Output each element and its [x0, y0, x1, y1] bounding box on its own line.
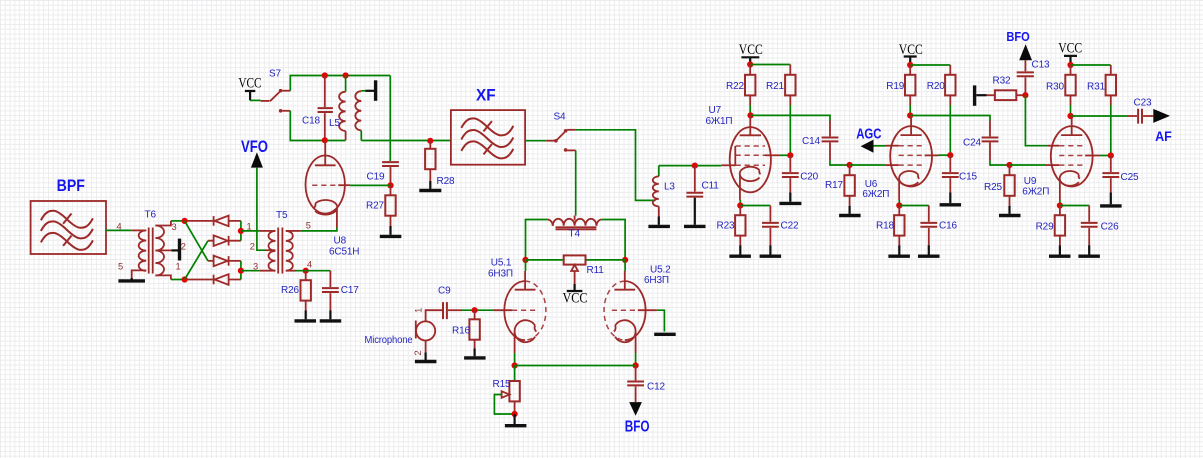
transformer T6 [132, 221, 172, 280]
svg-text:R23: R23 [717, 221, 735, 232]
inductor L3 [653, 166, 659, 217]
wire grid U6 [850, 164, 885, 166]
svg-text:R25: R25 [984, 182, 1002, 193]
node ring right-bottom [238, 268, 244, 274]
svg-text:C14: C14 [802, 136, 820, 147]
svg-text:R32: R32 [993, 76, 1011, 87]
wire U6 cathode [898, 200, 900, 206]
wire U5.2 cathode down [635, 353, 637, 366]
node U6 plate [907, 112, 913, 118]
svg-text:6Н3П: 6Н3П [644, 275, 669, 286]
wire ring to T5 pin1 [241, 230, 260, 232]
wire U9 cathode [1059, 200, 1061, 206]
svg-text:2: 2 [181, 241, 186, 251]
wire ring cross diagonal A [185, 221, 208, 261]
node cathode left [511, 362, 517, 368]
svg-text:C23: C23 [1134, 98, 1152, 109]
power VCC (U9) [1058, 40, 1082, 62]
wire T6 pin1 to ring [171, 279, 185, 281]
wire L3 top to U7 grid [659, 165, 722, 167]
power VCC (U7) [739, 42, 763, 62]
wire ring right top vertical [240, 221, 242, 241]
svg-text:2: 2 [413, 350, 423, 355]
arrow AF (right) [1153, 109, 1170, 123]
svg-text:C15: C15 [959, 172, 977, 183]
ground at U5.2 grid [654, 333, 676, 336]
wire U7 cathode [739, 200, 741, 206]
node R25 top [1006, 162, 1012, 168]
diode D1 [187, 216, 241, 227]
svg-text:C18: C18 [302, 116, 320, 127]
svg-text:C22: C22 [781, 221, 799, 232]
wire S4 top to L3 tap [576, 130, 656, 201]
ground under L3 [648, 217, 670, 227]
transformer T4 [548, 216, 602, 230]
node U5.2 plate [622, 257, 628, 263]
inductor L5 [339, 76, 346, 141]
svg-text:U7: U7 [709, 105, 722, 116]
node C13/R32 [1022, 92, 1028, 98]
resistor R25 [1004, 165, 1014, 206]
svg-text:R31: R31 [1087, 82, 1105, 93]
node R15 bottom [511, 411, 517, 417]
ground under R16 [464, 349, 486, 358]
svg-text:VCC: VCC [899, 42, 923, 58]
ground under C22 [760, 245, 782, 256]
rheostat R15 [494, 366, 519, 415]
wire AGC to U6 [874, 145, 887, 147]
node R17 top [847, 162, 853, 168]
wire grid U9 [1010, 164, 1046, 166]
wire T5 pin5 to U8 cathode [301, 227, 337, 231]
node R28 top [427, 138, 433, 144]
ground under T6 pin5 [118, 278, 145, 281]
wire C14 to U6 grid [830, 160, 850, 165]
svg-text:C13: C13 [1032, 60, 1050, 71]
resistor R32 (horizontal) [987, 90, 1026, 100]
ground under C15 [940, 193, 962, 205]
triode U8 [306, 141, 351, 228]
svg-text:Microphone: Microphone [365, 335, 414, 346]
svg-text:R29: R29 [1036, 222, 1054, 233]
svg-text:T6: T6 [145, 210, 157, 221]
svg-text:C19: C19 [367, 172, 385, 183]
svg-text:R20: R20 [927, 81, 945, 92]
node U7 cathode [737, 202, 743, 208]
node C11 top [692, 163, 698, 169]
capacitor C25 [1102, 156, 1119, 193]
ground under C17 [320, 311, 342, 321]
node C18 top [322, 72, 328, 78]
svg-text:R18: R18 [876, 221, 894, 232]
svg-text:U8: U8 [334, 236, 347, 247]
svg-text:R22: R22 [726, 81, 744, 92]
node L5 top [343, 72, 349, 78]
arrow AGC (left) [861, 140, 874, 153]
svg-text:VFO: VFO [241, 138, 268, 156]
node U6 cathode [896, 202, 902, 208]
wire cathode bus [515, 365, 636, 367]
svg-text:BPF: BPF [57, 176, 85, 195]
capacitor C17 [322, 271, 339, 311]
wire VCC to R31 [1071, 64, 1111, 66]
node tank bottom / U8 plate [322, 137, 328, 143]
wire XF out [525, 140, 546, 142]
ground under R23 [729, 245, 751, 256]
terminal bar at T6 pin2 [172, 239, 180, 261]
resistor R18 [894, 206, 904, 246]
node U5.1 plate [522, 257, 528, 263]
wire tank bottom rail to XF input [361, 140, 451, 142]
svg-text:3: 3 [253, 261, 258, 271]
svg-text:R17: R17 [825, 180, 843, 191]
node U9 cathode [1057, 202, 1063, 208]
wire U6 screen [939, 154, 951, 156]
capacitor C9 [443, 302, 462, 319]
wire R11 right [586, 259, 626, 261]
resistor R20 [945, 65, 955, 155]
svg-text:U5.2: U5.2 [650, 265, 671, 276]
capacitor C24 [982, 121, 999, 161]
svg-text:R19: R19 [886, 81, 904, 92]
wire ring right bottom vertical [240, 261, 242, 280]
pentode U9 [1046, 116, 1100, 200]
node U6 screen [947, 152, 953, 158]
wire R11 left [526, 259, 564, 261]
node VCC U7 [747, 61, 753, 67]
arrow BFO (up) [1019, 44, 1032, 60]
ground under C20 [779, 193, 801, 204]
wire U8 grid [350, 184, 390, 186]
svg-text:R27: R27 [366, 201, 384, 212]
wire U5.1 cathode down [514, 353, 516, 366]
wire ring to T5 pin3 [241, 270, 260, 272]
triode U5.2 [604, 260, 657, 353]
capacitor C13 [1017, 60, 1034, 95]
resistor R29 [1055, 206, 1065, 246]
switch S4 [546, 129, 576, 152]
ground under R29 [1049, 245, 1071, 256]
svg-text:VCC: VCC [563, 291, 588, 307]
capacitor C14 [822, 121, 839, 161]
svg-text:XF: XF [476, 87, 496, 105]
resistor R22 [745, 65, 755, 116]
node U9 plate [1067, 113, 1073, 119]
wire ring cross diagonal B [185, 241, 208, 280]
resistor R30 [1065, 65, 1075, 116]
svg-text:C12: C12 [647, 382, 665, 393]
svg-text:L3: L3 [664, 182, 675, 193]
node ring bottom-left [182, 276, 188, 282]
svg-text:AGC: AGC [856, 125, 881, 142]
svg-text:R28: R28 [437, 176, 455, 187]
ground under R18 [888, 245, 910, 256]
wire VCC to R20 [910, 64, 950, 66]
svg-text:VCC: VCC [238, 76, 261, 92]
wire BPF to T6 pin 4 [106, 229, 132, 231]
wire cathode to C22 [740, 205, 770, 207]
svg-text:6Ж2П: 6Ж2П [1022, 186, 1049, 197]
wire U7 plate rail to C14 [751, 115, 831, 120]
svg-text:R15: R15 [493, 379, 511, 390]
wire U7 screen [779, 154, 790, 156]
ground under C11 [684, 225, 706, 228]
wire S7 bottom contact down [290, 111, 345, 141]
svg-text:1: 1 [176, 262, 181, 272]
svg-text:6Н3П: 6Н3П [488, 269, 513, 280]
svg-text:6C51H: 6C51H [329, 247, 359, 258]
capacitor C23 [1128, 109, 1153, 124]
svg-text:C9: C9 [438, 286, 451, 297]
node C19/R27/U8 grid [387, 182, 393, 188]
power VCC (osc) [238, 76, 261, 101]
node U7 plate [747, 112, 753, 118]
pentode U7 [721, 115, 779, 200]
svg-text:S4: S4 [554, 112, 567, 123]
wire cathode to C16 [899, 205, 929, 207]
wire C9 to U5.1 grid [462, 309, 494, 311]
wire VCC to R21 [750, 64, 790, 66]
node U9 screen [1108, 152, 1114, 158]
ground under R25 [999, 206, 1021, 216]
diode D4 [187, 274, 241, 285]
wire C24 to U9 grid [990, 160, 1010, 165]
BPF filter block [31, 201, 106, 254]
svg-text:1: 1 [247, 222, 252, 232]
svg-text:2: 2 [250, 241, 255, 251]
capacitor C18 [318, 76, 333, 141]
resistor R19 [905, 65, 915, 116]
triode U5.1 [494, 260, 546, 353]
diode D2 [208, 235, 241, 246]
wire U9 plate rail to C23 [1071, 115, 1129, 117]
svg-text:R21: R21 [766, 81, 784, 92]
wire U6 plate rail to C24 [910, 116, 990, 121]
svg-text:AF: AF [1155, 129, 1172, 145]
svg-text:R26: R26 [281, 285, 299, 296]
node ring top-left [182, 218, 188, 224]
ground under R15 [505, 414, 527, 426]
svg-text:C17: C17 [341, 285, 359, 296]
capacitor C20 [782, 155, 799, 192]
switch S7 [250, 89, 290, 113]
svg-text:1: 1 [413, 308, 423, 313]
diode D3 [208, 256, 241, 267]
ground under R28 [419, 181, 441, 191]
capacitor C19 [382, 162, 399, 185]
resistor R23 [735, 206, 745, 246]
ground under C25 [1100, 193, 1122, 206]
svg-text:R16: R16 [452, 326, 470, 337]
svg-text:R11: R11 [587, 265, 605, 276]
resistor R21 [785, 65, 795, 156]
svg-text:C24: C24 [963, 138, 981, 149]
node R16 top [472, 307, 478, 313]
svg-text:4: 4 [307, 259, 312, 269]
svg-text:BFO: BFO [1006, 30, 1030, 44]
pentode U6 [885, 116, 939, 201]
capacitor C11 [686, 166, 703, 225]
crystal filter XF block [451, 110, 525, 165]
svg-text:C26: C26 [1101, 222, 1119, 233]
svg-text:4: 4 [117, 221, 122, 231]
ground under R27 [380, 226, 402, 236]
inductor L5b (coupled winding) [355, 91, 365, 141]
wire S7 top to tank rail [290, 76, 390, 91]
wire T5 pin4 to R26/C17 [296, 270, 330, 272]
resistor R28 [425, 141, 435, 181]
wire VFO to T5 pin2 [257, 168, 266, 251]
svg-text:VCC: VCC [739, 42, 763, 58]
svg-text:VCC: VCC [1058, 40, 1082, 56]
svg-text:6Ж2П: 6Ж2П [862, 189, 889, 200]
svg-text:C20: C20 [800, 172, 818, 183]
wire T4 left to U5.1 plate [526, 220, 548, 260]
resistor R26 [301, 271, 311, 311]
capacitor C26 [1081, 206, 1098, 246]
svg-text:BFO: BFO [625, 419, 650, 436]
wire T6 pin3 to ring [171, 220, 185, 222]
node VCC U6 [907, 62, 913, 68]
capacitor C15 [942, 155, 959, 192]
arrow BFO (down) [629, 402, 642, 416]
wire T4 right to U5.2 plate [602, 220, 625, 260]
capacitor C12 [627, 366, 644, 403]
wire cathode to C26 [1060, 205, 1089, 207]
ground under C16 [918, 245, 940, 256]
resistor R31 [1106, 65, 1116, 156]
wire U5.2 grid to ground [657, 310, 665, 331]
wire C19 vertical from top rail [389, 76, 391, 162]
resistor R27 [385, 185, 395, 226]
resistor R16 [469, 310, 479, 348]
capacitor C22 [762, 206, 779, 246]
wire BFO to U9 [1025, 95, 1048, 146]
ground under R26 [295, 311, 317, 321]
ground under C26 [1078, 245, 1100, 256]
node VCC U9 [1067, 62, 1073, 68]
svg-text:T5: T5 [276, 210, 288, 221]
transformer T5 [260, 228, 301, 274]
power VCC (U6) [899, 42, 923, 63]
ground under mic [415, 353, 437, 362]
svg-text:C11: C11 [702, 181, 720, 192]
node T5 pin4 [303, 268, 309, 274]
svg-text:L5: L5 [329, 118, 340, 129]
node cathode right [633, 362, 639, 368]
svg-text:C25: C25 [1121, 172, 1139, 183]
terminal bar at R32 [975, 85, 987, 105]
svg-text:3: 3 [172, 222, 177, 232]
svg-text:S7: S7 [269, 69, 282, 80]
svg-text:R30: R30 [1046, 82, 1064, 93]
ground under R17 [839, 206, 861, 216]
svg-text:6Ж1П: 6Ж1П [706, 116, 733, 127]
wire S4 bottom to T4 tap [575, 150, 577, 215]
node U7 screen [787, 152, 793, 158]
svg-text:U5.1: U5.1 [491, 258, 512, 269]
microphone BM1 [416, 310, 442, 352]
svg-text:C16: C16 [939, 221, 957, 232]
node ring right-top [238, 228, 244, 234]
potentiometer R11 [564, 255, 586, 284]
terminal bar at L5b [365, 80, 375, 101]
power VCC (R11) [563, 284, 588, 307]
wire U9 screen [1099, 155, 1111, 157]
svg-text:5: 5 [118, 262, 123, 272]
svg-text:T4: T4 [569, 229, 581, 240]
resistor R17 [844, 165, 854, 206]
arrow VFO [251, 152, 263, 167]
capacitor C16 [920, 206, 937, 246]
svg-text:5: 5 [306, 220, 311, 230]
